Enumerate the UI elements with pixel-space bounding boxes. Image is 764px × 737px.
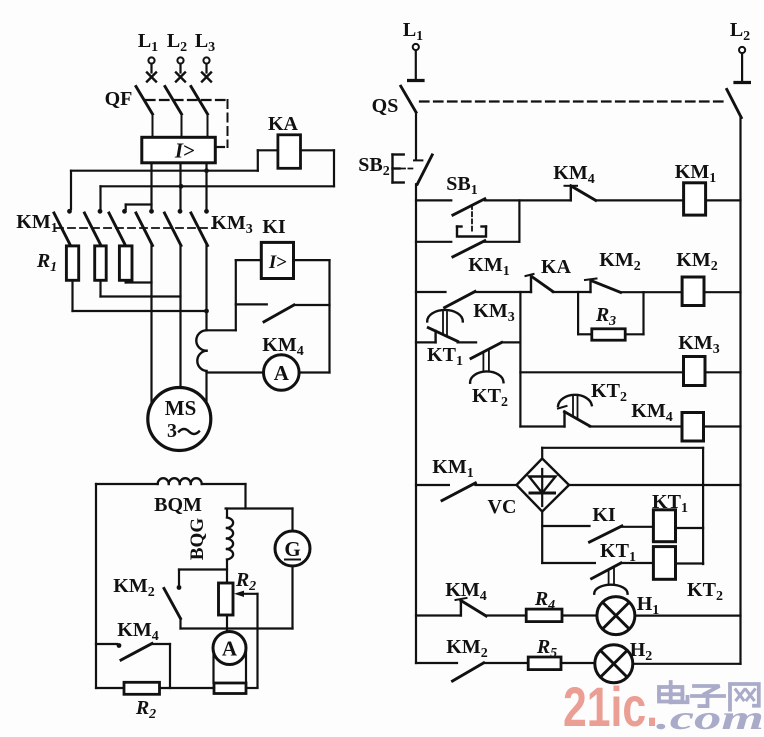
svg-text:BQM: BQM	[154, 494, 202, 516]
terminal L2 label (control)	[730, 19, 750, 44]
contact KI blade	[590, 526, 622, 542]
inductor BQM label	[154, 494, 202, 516]
contact KM2 NC (rung2)	[585, 279, 621, 293]
rotor contacts linkage dashed	[56, 227, 215, 229]
wire KT1 contact to KT2 coil	[621, 562, 653, 564]
svg-text:MS: MS	[165, 396, 197, 420]
svg-text:R3: R3	[595, 304, 616, 329]
ammeter A (brake)	[213, 632, 246, 665]
rotor contact 2 terminal dot	[98, 209, 103, 214]
resistor R3 label	[595, 304, 616, 329]
wire KM2 to R5	[484, 662, 529, 664]
wire KT1 coil right	[676, 527, 704, 529]
wire phase line2 vertical	[179, 163, 181, 211]
self-hold branch wires	[416, 200, 519, 241]
wire R1b bottom to line2	[101, 280, 181, 296]
breaker QF label	[105, 88, 133, 110]
switch QS blade left	[401, 86, 416, 112]
watermark .com (lavender)	[656, 700, 764, 737]
svg-text:KM1: KM1	[16, 211, 57, 236]
contact KM4 NC (H1 rung) label	[445, 579, 486, 604]
junction dot wire B / line2	[179, 184, 184, 189]
svg-text:KA: KA	[541, 256, 572, 278]
svg-text:A: A	[274, 361, 290, 385]
svg-text:KM2: KM2	[676, 249, 717, 274]
rectifier VC label	[488, 496, 517, 518]
watermark 21ic (red)	[563, 675, 658, 737]
relay coil KT1	[653, 510, 675, 542]
svg-text:L2: L2	[730, 19, 750, 44]
terminal L2 circle + breaker cross (left)	[176, 57, 185, 81]
rung5 wire left	[416, 484, 449, 486]
svg-text:KT2: KT2	[591, 380, 627, 405]
wire G bottom stub	[291, 566, 293, 629]
H2 rung wire left	[416, 662, 457, 664]
timed contact KT2 (rung3a)	[470, 342, 503, 382]
contactor coil KM4	[682, 413, 704, 442]
breaker QF linkage dashed	[146, 100, 228, 147]
relay coil KT1 label	[652, 491, 688, 516]
svg-text:KM4: KM4	[117, 619, 158, 644]
svg-text:KT2: KT2	[687, 579, 723, 604]
contact KA label (rung2)	[541, 256, 572, 278]
svg-text:L3: L3	[195, 30, 215, 55]
svg-text:H1: H1	[637, 593, 660, 618]
wire KA right to wire B	[301, 150, 335, 186]
wire KT2 coil right	[676, 562, 704, 564]
svg-text:3: 3	[167, 420, 177, 442]
rotor contact 6 blade	[191, 213, 208, 246]
wire KI right to right leg	[294, 260, 330, 372]
current relay coil KI box	[261, 242, 293, 278]
terminal L1 (control)	[409, 44, 423, 81]
svg-text:KT1: KT1	[427, 344, 463, 369]
breaker QF pole 3 blade	[191, 87, 208, 138]
pushbutton SB2 blade	[414, 155, 432, 184]
pushbutton SB2 label	[358, 154, 389, 179]
lamp H2	[595, 645, 633, 683]
contact KM1 (rung5) label	[432, 456, 473, 481]
lamp H1	[597, 597, 635, 635]
rotor contact 3 terminal dot	[122, 209, 127, 214]
svg-text:G: G	[284, 537, 300, 561]
KT1 timed rung wire	[542, 562, 595, 564]
wire BQG bottom to rheostat	[226, 560, 228, 584]
rung4 wire coil to bus	[704, 425, 741, 427]
pushbutton SB1 label	[446, 173, 477, 198]
svg-text:QF: QF	[105, 88, 133, 110]
contactor coil KM2	[682, 277, 704, 306]
svg-text:A: A	[222, 637, 238, 661]
contact KM2 (H2 rung) label	[446, 636, 487, 661]
contact KM4 NC (rung1) label	[553, 162, 594, 187]
wire G top stub	[291, 509, 293, 532]
svg-text:KM2: KM2	[599, 249, 640, 274]
contact KM2 NC (rung2) label	[599, 249, 640, 274]
rung3a wire right	[502, 341, 521, 343]
terminal L1 label (left)	[138, 30, 158, 55]
shunt verticals	[214, 651, 247, 683]
contactor KM1 label (rotor contacts)	[16, 211, 57, 236]
wire VC top to KT coils right	[542, 448, 703, 564]
wire B (line2 to KM1 contact 2 and KA)	[101, 186, 335, 209]
svg-text:L2: L2	[167, 30, 187, 55]
contact KM4 (ammeter circuit) wire left	[236, 303, 267, 305]
contactor coil KM2 label	[676, 249, 717, 274]
rotor contact 1 terminal dot	[67, 209, 72, 214]
relay coil KA	[278, 135, 301, 169]
resistor R2 label (bottom)	[135, 697, 156, 722]
timed contact KT1 (delay close NO)	[427, 310, 463, 342]
wire H1 to bus	[635, 614, 741, 616]
lamp H1 label	[637, 593, 660, 618]
wire R1c bottom to line1	[126, 280, 152, 282]
pushbutton SB1 blade	[453, 199, 485, 215]
rung2 wire mid2	[553, 291, 591, 293]
terminal L3 circle + breaker cross (left)	[202, 57, 211, 81]
contactor coil KM1 label	[675, 161, 716, 186]
rung3 wire	[520, 371, 683, 373]
rung2 wire coil to bus	[704, 291, 741, 293]
resistor R4	[526, 609, 562, 622]
right bus	[739, 118, 741, 664]
rotor contact 2 blade	[85, 213, 102, 246]
rotor contact 4 terminal dot	[149, 209, 154, 214]
resistor R3	[592, 329, 625, 340]
resistor R4 label	[534, 588, 555, 613]
wire line3 CT to motor	[205, 371, 207, 403]
relay coil KA label	[268, 113, 299, 135]
contactor coil KM3 label	[678, 332, 719, 357]
lamp H2 label	[630, 639, 653, 664]
wire rheostat to ammeter	[226, 615, 228, 632]
resistor R3 branch right leg	[625, 292, 643, 334]
svg-text:R1: R1	[36, 250, 57, 275]
contact KM4 NC (rung1)	[565, 186, 596, 201]
rung2 wire left	[416, 291, 446, 293]
contactor coil KM3	[684, 357, 706, 386]
svg-text:KM4: KM4	[445, 579, 486, 604]
rung3a wire left	[416, 341, 436, 343]
svg-text:.com: .com	[656, 700, 764, 732]
watermark 电子网 (lavender)	[659, 682, 759, 710]
current relay KI label	[262, 216, 286, 238]
shunt resistor (below ammeter)	[214, 683, 246, 694]
wire jumper line1 to contact 3	[126, 205, 152, 210]
terminal L1 label (control)	[403, 19, 423, 44]
rung1 wire coil to bus	[706, 199, 741, 201]
timed contact KT1 label	[427, 344, 463, 369]
contactor coil KM4 label	[631, 400, 672, 425]
rotor contact 6 terminal dot	[204, 209, 209, 214]
relay coil KT2	[653, 547, 675, 580]
switch QS blade right	[727, 89, 742, 117]
resistor R1 section c	[119, 246, 132, 280]
wire R4 to H1	[562, 614, 597, 616]
svg-text:SB2: SB2	[358, 154, 389, 179]
relay coil KT2 label	[687, 579, 723, 604]
svg-text:KM2: KM2	[113, 575, 154, 600]
wire KM4 to R4	[486, 614, 526, 616]
motor MS 3~	[148, 388, 211, 451]
rung5 wire right	[569, 484, 741, 486]
rotor contact 5 terminal dot	[178, 209, 183, 214]
contact KM1 (rung5) blade	[442, 483, 475, 501]
rung1 wire left	[416, 199, 451, 201]
svg-text:I>: I>	[174, 139, 195, 163]
svg-text:KM3: KM3	[473, 300, 514, 325]
svg-text:KM3: KM3	[211, 212, 252, 237]
breaker QF pole 2 blade	[165, 87, 182, 138]
svg-text:KM2: KM2	[446, 636, 487, 661]
timed contact KT2 label (rung3a)	[472, 385, 508, 410]
rotor contact 1 blade	[54, 213, 71, 246]
wire CT bottom to ammeter	[207, 371, 264, 373]
rheostat R2 wiper arrow	[234, 591, 258, 687]
rotor contact 3 blade	[109, 213, 126, 246]
contact KM4 label (brake)	[117, 619, 158, 644]
timed contact KT2 label (rung4)	[591, 380, 627, 405]
junction dot R1a wire / line3	[204, 309, 209, 314]
svg-text:KI: KI	[592, 504, 616, 526]
current transformer (2 bumps on line3)	[196, 330, 206, 371]
brake circuit outer loop wires	[96, 484, 246, 688]
pushbutton SB2 actuator E-bracket	[393, 155, 414, 183]
contact KM4 label (ammeter circuit)	[262, 334, 303, 359]
switch QS linkage dashed	[420, 100, 724, 102]
contact KM2 (brake) blade	[164, 589, 181, 619]
contact KM4 (brake)	[96, 643, 170, 688]
svg-text:KM1: KM1	[432, 456, 473, 481]
terminal L1 circle + breaker cross (left)	[147, 57, 156, 81]
contact KM2 (brake) bottom wire	[179, 619, 181, 629]
resistor R1 section b	[95, 246, 107, 280]
svg-text:KM1: KM1	[468, 254, 509, 279]
rung5 wire mid	[475, 484, 516, 486]
rheostat R2 (brake)	[219, 583, 234, 615]
rectifier bridge VC diamond	[517, 459, 570, 512]
resistor R1 label	[36, 250, 57, 275]
resistor R2 (brake bottom)	[124, 682, 160, 694]
svg-text:KI: KI	[262, 216, 286, 238]
contact KM4 (ammeter circuit) wire right	[294, 304, 330, 306]
svg-text:BQG: BQG	[187, 518, 208, 560]
wire KI left to CT top	[207, 260, 262, 330]
wire phase line1 vertical	[150, 163, 152, 211]
junction vertical (rung2 to lower rungs)	[519, 292, 521, 427]
wire phase line3 vertical	[205, 163, 207, 211]
inductor BQM (4 bumps)	[158, 478, 202, 484]
contact KM3 (rung2) label	[473, 300, 514, 325]
contact KM3 (rung2) blade	[445, 292, 475, 308]
left bus (SB2 to bottom)	[415, 184, 417, 663]
contactor KM3 label (rotor contacts)	[211, 212, 252, 237]
rung1 wire to coil	[596, 199, 684, 201]
rectifier VC diode symbol	[529, 469, 556, 506]
rung3 wire coil to bus	[705, 371, 741, 373]
timed contact KT1 (lower)	[592, 563, 628, 594]
svg-text:I>: I>	[268, 252, 287, 273]
contact KM2 label (brake)	[113, 575, 154, 600]
wire H2 to bus	[633, 663, 741, 665]
contact KM2 (H2 rung) blade	[453, 663, 484, 681]
svg-text:QS: QS	[372, 95, 399, 117]
rung2 wire mid1	[475, 291, 531, 293]
resistor R3 branch left leg	[578, 292, 592, 334]
contact KI label	[592, 504, 616, 526]
svg-text:SB1: SB1	[446, 173, 477, 198]
wire KI to KT1 coil	[622, 526, 654, 528]
contact KM1 self-hold label	[468, 254, 509, 279]
terminal L2 (control)	[735, 47, 749, 83]
wire R1a bottom to line3	[73, 280, 207, 311]
breaker QF pole 1 blade	[136, 87, 153, 138]
svg-text:KT2: KT2	[472, 385, 508, 410]
switch QS label	[372, 95, 399, 117]
svg-text:KA: KA	[268, 113, 299, 135]
meter G (generator/galvanometer)	[275, 531, 310, 566]
wire R5 to H2	[561, 662, 595, 664]
rotor contact 4 blade	[136, 213, 153, 246]
KI contact rung wire	[542, 525, 589, 527]
contact KM4 (ammeter circuit) blade	[264, 305, 294, 322]
svg-text:VC: VC	[488, 496, 517, 518]
wire ammeter right	[299, 371, 329, 373]
svg-text:R2: R2	[135, 697, 156, 722]
wire VC bottom vertical	[541, 512, 543, 564]
rheostat R2 label	[235, 569, 256, 594]
svg-text:L1: L1	[403, 19, 423, 44]
svg-text:KM3: KM3	[678, 332, 719, 357]
rung4 wire left	[520, 425, 564, 427]
inductor BQG (4 bumps)	[227, 518, 233, 560]
resistor R1 section a	[66, 246, 78, 280]
junction dot wire A / line3	[204, 168, 209, 173]
pushbutton SB1 actuator	[457, 205, 486, 237]
rung1 wire mid	[485, 199, 571, 201]
contact KA (rung2)	[526, 274, 553, 292]
ammeter A (rotor)	[264, 355, 300, 391]
svg-text:KM4: KM4	[631, 400, 672, 425]
terminal L3 label (left)	[195, 30, 215, 55]
wire line1 to motor	[150, 246, 152, 405]
svg-text:R2: R2	[235, 569, 256, 594]
svg-text:21ic.: 21ic.	[563, 675, 658, 732]
rung2 wire to coil	[621, 291, 683, 293]
contactor coil KM1	[684, 183, 706, 215]
inductor BQG label (rotated)	[187, 518, 208, 560]
H1 rung wire left	[416, 614, 461, 616]
resistor R5 label	[536, 636, 557, 661]
left bus top (QS to SB2)	[415, 112, 417, 159]
wire line2 to motor	[179, 246, 181, 388]
timed contact KT2 (rung4)	[558, 395, 592, 427]
svg-text:KM4: KM4	[553, 162, 594, 187]
contact KM2 (brake) terminal+wires	[177, 570, 227, 590]
rotor contact 5 blade	[165, 213, 182, 246]
terminal L2 label (left)	[167, 30, 187, 55]
resistor R5	[528, 657, 561, 670]
timed contact KT1 label (lower)	[600, 540, 636, 565]
contact KM4 NC (H1 rung)	[456, 598, 487, 616]
svg-text:KT1: KT1	[600, 540, 636, 565]
rung3a wire mid	[458, 341, 477, 343]
rung4 wire mid	[590, 425, 682, 427]
contact KM1 self-hold blade	[453, 241, 485, 257]
wire inner top (BQG/G branch)	[226, 509, 293, 518]
wire A (line3 to KM1 contact 1 and KA)	[71, 150, 278, 209]
svg-text:L1: L1	[138, 30, 158, 55]
wire brake bottom	[96, 687, 258, 689]
wire line3 to CT	[205, 246, 207, 331]
wire KM2-bottom / wiper / G junction	[181, 627, 293, 629]
overcurrent release box I> (QF)	[142, 137, 216, 163]
